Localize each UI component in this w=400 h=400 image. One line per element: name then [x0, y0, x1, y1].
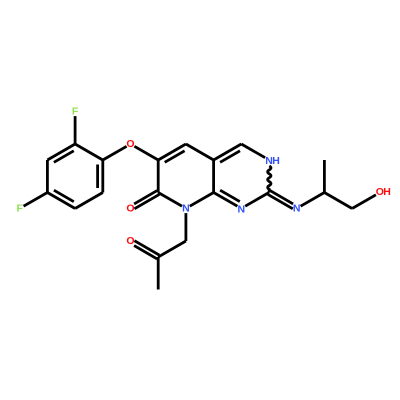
- double bond C6'=C1' (phenyl): [101, 160, 104, 193]
- wavy bond N3-C2 (undefined tautomer): [268, 166, 271, 193]
- bond C3'-C4' (phenyl): [46, 160, 49, 193]
- bond O-C6 (ether): [134, 146, 158, 160]
- bond N8-C12 (acetonyl chain): [184, 213, 187, 241]
- svg-text:O: O: [126, 235, 134, 247]
- bond C5'-C6' (phenyl): [75, 193, 103, 209]
- bond C5-C4a (pyridone): [186, 144, 214, 160]
- bond C1'-C2' (phenyl): [75, 144, 103, 160]
- bond C8a-N8 (pyridone): [190, 193, 214, 207]
- svg-text:N: N: [238, 203, 246, 215]
- svg-text:N: N: [182, 203, 190, 215]
- double bond C2=N (exocyclic imine): [268, 194, 293, 208]
- bond C13-C14 (methyl): [157, 257, 160, 290]
- double bond C7=O (lactam carbonyl): [134, 191, 157, 204]
- bond C12-C13 (acetonyl chain): [158, 241, 186, 257]
- double bond C4a=C4 (pyrimidine): [214, 144, 242, 160]
- bond N8-C7 (pyridone): [158, 193, 182, 207]
- bond N-C10 (aminopropanol chain): [301, 193, 325, 207]
- svg-text:H: H: [383, 186, 391, 198]
- bond N1-C2 (pyrimidine): [245, 193, 269, 207]
- svg-text:H: H: [272, 155, 280, 167]
- double bond C2'=C3' (phenyl): [47, 144, 75, 160]
- double bond C8a=N1 (pyrimidine): [214, 193, 238, 207]
- double bond C4'=C5' (phenyl): [47, 193, 75, 209]
- svg-text:F: F: [16, 203, 23, 215]
- bond C4a-C8a (ring fusion): [212, 160, 215, 193]
- bond C7-C6 (pyridone): [157, 160, 160, 193]
- svg-text:O: O: [126, 138, 134, 150]
- bond C10-CH3 (methyl): [323, 160, 326, 193]
- svg-text:O: O: [126, 203, 134, 215]
- bond C10-C11 (chain): [324, 193, 352, 209]
- bond C4'-F (para fluorine): [24, 193, 48, 207]
- bond C2'-F (ortho fluorine): [74, 116, 77, 144]
- svg-text:N: N: [293, 203, 301, 215]
- bond C1'-O (ether): [103, 146, 127, 160]
- svg-text:F: F: [72, 106, 79, 118]
- double bond C6=C5 (pyridone): [158, 144, 186, 160]
- double bond C13=O (ketone carbonyl): [134, 241, 159, 255]
- bond C11-OH (hydroxyl): [352, 195, 376, 209]
- bond C4-N3 (pyrimidine): [241, 144, 265, 158]
